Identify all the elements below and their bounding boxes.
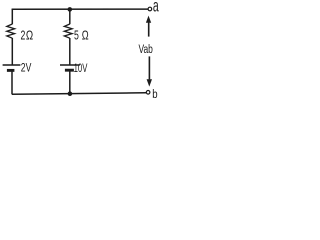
svg-text:2: 2 [21,29,26,43]
battery V2 short negative plate [65,69,74,72]
terminal b open circle [146,91,150,95]
arrow down toward terminal b [148,56,150,79]
value label 2V [21,61,32,75]
wire: left branch middle lead [11,38,13,65]
value label 10V [74,62,88,75]
node: top junction dot [68,7,73,12]
arrow up toward terminal a [148,22,150,37]
wire: middle branch middle lead [69,38,71,65]
svg-text:Vab: Vab [139,42,153,56]
svg-text:Ω: Ω [26,30,34,44]
wire: middle branch lower lead [69,71,71,94]
svg-text:Ω: Ω [82,29,89,43]
wire: left branch lower lead [11,71,13,95]
svg-text:a: a [153,0,160,16]
svg-text:2V: 2V [21,61,32,75]
battery V2 long positive plate [60,64,80,66]
battery V1 long positive plate [3,64,21,66]
node label a [153,0,160,16]
label Vab [139,42,153,56]
wire: top rail [12,8,149,10]
wire: middle branch upper lead [69,9,71,24]
wire: left branch upper lead [11,9,13,24]
svg-text:5: 5 [74,29,79,43]
terminal a open circle [148,7,152,11]
value label 5Ω [74,29,79,43]
node: bottom junction dot [68,91,73,96]
battery V1 short negative plate [7,69,14,72]
resistor R2 zigzag [64,24,72,38]
node label b [152,88,157,101]
svg-text:10V: 10V [74,62,88,75]
svg-text:b: b [152,88,157,100]
value label 2Ω [21,29,26,43]
wire: bottom rail [12,93,146,94]
resistor R1 zigzag [7,24,15,38]
